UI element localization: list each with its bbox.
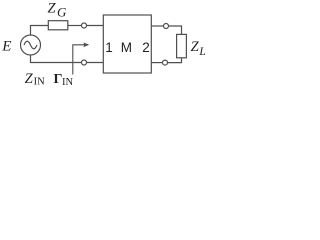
AC source E [21,35,41,55]
node port2 bottom terminal [163,60,168,65]
impedance Z_L [177,34,187,57]
svg-text:IN: IN [62,77,73,88]
wire Z_L bottom lead [168,58,182,63]
impedance Z_G [48,21,68,30]
svg-text:1: 1 [105,40,113,55]
svg-text:IN: IN [34,77,45,88]
node port2 top terminal [164,24,169,29]
wire Z_G to node [68,25,82,27]
wire network to port2 top node [152,25,164,27]
node port1 top terminal [82,23,87,28]
svg-text:E: E [1,38,11,54]
svg-text:Z: Z [25,71,34,87]
wire port2 bottom to network [152,62,163,64]
two-port network M [103,15,151,73]
wire bottom-left [31,55,82,63]
svg-text:G: G [57,4,67,19]
svg-text:Z: Z [48,0,57,16]
svg-text:M: M [121,40,132,55]
svg-text:2: 2 [142,40,150,55]
svg-text:Z: Z [191,39,200,55]
node port1 bottom terminal [82,60,87,65]
svg-text:L: L [198,46,205,58]
Gamma_IN reference line and arrow [73,42,90,74]
wire source top lead [30,26,32,36]
wire node to network [87,25,104,27]
wire top-left [31,25,49,28]
wire top-right [168,26,181,34]
wire network to port1 bottom node [87,62,104,64]
